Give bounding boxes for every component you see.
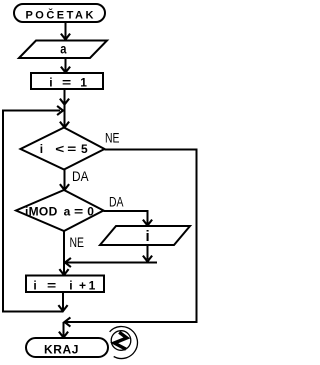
svg-text:DA: DA	[109, 195, 124, 210]
process i = i +1	[26, 276, 104, 293]
svg-text:i: i	[146, 228, 150, 245]
process i = 1	[31, 73, 103, 90]
terminator KRAJ	[26, 338, 108, 357]
wire POČETAK to input a	[61, 22, 70, 40]
svg-text:POČETAK: POČETAK	[25, 9, 95, 22]
io parallelogram a	[19, 41, 107, 59]
icon circular logo next to KRAJ	[110, 327, 138, 359]
wire decision 2 NE to i = i +1	[59, 231, 68, 275]
label NE (decision 1)	[105, 131, 120, 146]
wire decision 1 DA to decision 2	[60, 170, 69, 191]
wire output i to merge before i = i +1	[65, 245, 157, 267]
label DA (decision 1)	[72, 169, 89, 184]
wire NE branch right rail to KRAJ	[59, 150, 197, 338]
svg-text:NE: NE	[70, 235, 85, 250]
label DA (decision 2)	[109, 195, 124, 210]
wire i = 1 to loop junction and decision 1	[60, 89, 69, 128]
svg-text:a: a	[60, 41, 66, 57]
wire input a to i = 1	[61, 58, 70, 73]
io parallelogram i	[100, 226, 190, 245]
decision 1 i <= 5	[21, 128, 105, 170]
wire loop return rail (from i = i +1 back to junction)	[3, 106, 68, 312]
terminator POČETAK	[14, 4, 105, 22]
decision 2 iMOD a=0	[16, 190, 104, 231]
label NE (decision 2)	[70, 235, 85, 250]
svg-text:NE: NE	[105, 131, 120, 146]
svg-text:KRAJ: KRAJ	[44, 343, 79, 357]
svg-text:DA: DA	[72, 169, 89, 184]
wire decision 2 DA branch to output i	[104, 211, 153, 226]
